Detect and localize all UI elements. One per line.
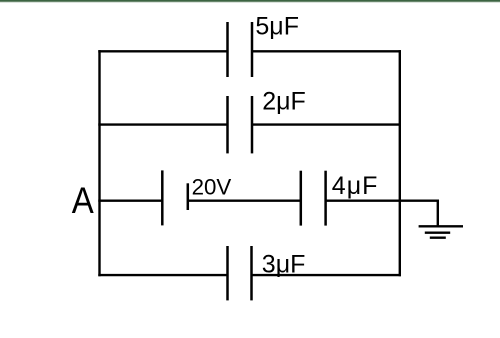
svg-text:3μF: 3μF <box>262 251 306 279</box>
wire: ground drop <box>437 200 439 227</box>
wire: middle branch center segment <box>188 199 301 201</box>
capacitor C3 4uF <box>301 171 326 226</box>
capacitor C2 2uF <box>228 96 253 153</box>
wire: right bus vertical <box>399 50 401 276</box>
battery V1 20V <box>162 170 188 225</box>
wire: branch 2 right segment <box>252 123 401 125</box>
svg-text:A: A <box>72 180 94 221</box>
wire: left bus (node A vertical) <box>98 50 100 276</box>
svg-text:5μF: 5μF <box>255 13 299 41</box>
ground <box>419 226 463 237</box>
wire: middle branch right segment to ground <box>326 199 438 201</box>
svg-text:20V: 20V <box>192 175 232 200</box>
svg-text:4μF: 4μF <box>332 172 379 200</box>
wire: top branch right segment <box>252 50 401 52</box>
capacitor C1 5uF <box>228 22 253 77</box>
wire: top branch left segment <box>98 50 227 52</box>
wire: bottom branch left segment <box>98 274 227 276</box>
svg-text:2μF: 2μF <box>262 88 306 116</box>
wire: bottom branch right segment <box>252 274 402 276</box>
wire: middle branch left segment <box>98 199 162 201</box>
wire: branch 2 left segment <box>98 123 227 125</box>
capacitor C4 3uF <box>228 246 252 300</box>
